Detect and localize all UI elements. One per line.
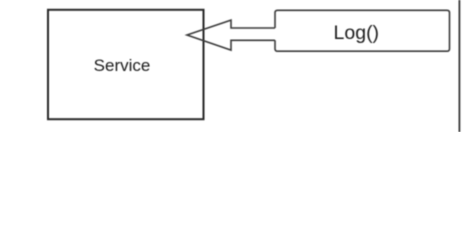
right border line xyxy=(458,0,460,132)
svg-text:Log(): Log() xyxy=(334,22,380,44)
Service box xyxy=(48,10,204,119)
svg-text:Service: Service xyxy=(94,56,151,75)
block arrow xyxy=(187,20,275,50)
Log() box xyxy=(275,10,450,51)
